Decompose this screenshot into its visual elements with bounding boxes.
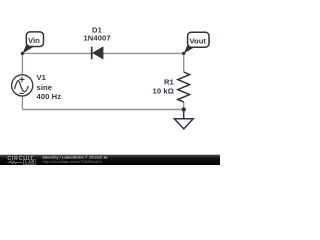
wire bottom — [22, 109, 183, 111]
wire left vertical lower — [21, 96, 23, 110]
source V1 — [12, 75, 33, 96]
svg-text:10 kΩ: 10 kΩ — [153, 87, 174, 96]
svg-text:Vout: Vout — [189, 36, 206, 45]
svg-text:http://circuitlab.com/c7f2855f: http://circuitlab.com/c7f2855fxa2h — [43, 160, 102, 164]
junction node dot — [182, 107, 186, 111]
wire left vertical upper — [21, 53, 23, 75]
footer text — [43, 156, 109, 164]
resistor R1 — [178, 72, 190, 102]
svg-text:V1: V1 — [37, 73, 47, 82]
wire right vertical lower — [183, 102, 185, 110]
diode D1 — [92, 47, 103, 60]
label V1 sine 400 Hz — [37, 73, 62, 101]
wire right vertical upper — [183, 53, 185, 72]
footer CircuitLab logo — [7, 156, 36, 165]
label D1 value 1N4007 — [83, 25, 110, 42]
svg-text:R1: R1 — [164, 77, 175, 86]
svg-text:400 Hz: 400 Hz — [37, 92, 62, 101]
footer bar — [0, 155, 220, 165]
svg-text:Vin: Vin — [28, 36, 40, 45]
node Vin flag — [21, 32, 44, 55]
label R1 10 kOhm — [153, 77, 175, 95]
node Vout flag — [182, 32, 209, 55]
svg-text:sine: sine — [37, 83, 53, 92]
ground — [174, 110, 193, 129]
svg-text:1N4007: 1N4007 — [83, 34, 110, 43]
svg-text:LAB: LAB — [25, 160, 35, 165]
wire top (node Vin to node Vout) — [22, 52, 183, 54]
